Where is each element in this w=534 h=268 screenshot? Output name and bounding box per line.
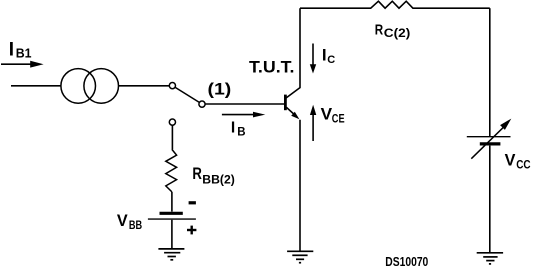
- svg-text:(1): (1): [208, 80, 232, 98]
- svg-text:BB(2): BB(2): [202, 175, 235, 187]
- svg-text:C: C: [327, 54, 335, 66]
- svg-text:R: R: [375, 21, 384, 38]
- svg-text:B1: B1: [16, 45, 32, 60]
- svg-text:BB: BB: [129, 220, 142, 232]
- svg-text:V: V: [321, 105, 333, 123]
- svg-text:C(2): C(2): [384, 28, 411, 40]
- svg-text:I: I: [322, 46, 327, 65]
- svg-text:R: R: [192, 164, 202, 183]
- svg-text:B: B: [237, 127, 245, 139]
- svg-text:V: V: [117, 211, 128, 230]
- svg-text:CE: CE: [332, 114, 345, 126]
- svg-text:V: V: [505, 151, 516, 170]
- svg-text:CC: CC: [516, 159, 530, 171]
- svg-text:I: I: [231, 119, 235, 136]
- svg-text:DS10070: DS10070: [385, 254, 428, 268]
- svg-text:T.U.T.: T.U.T.: [249, 59, 295, 77]
- svg-text:I: I: [9, 39, 14, 60]
